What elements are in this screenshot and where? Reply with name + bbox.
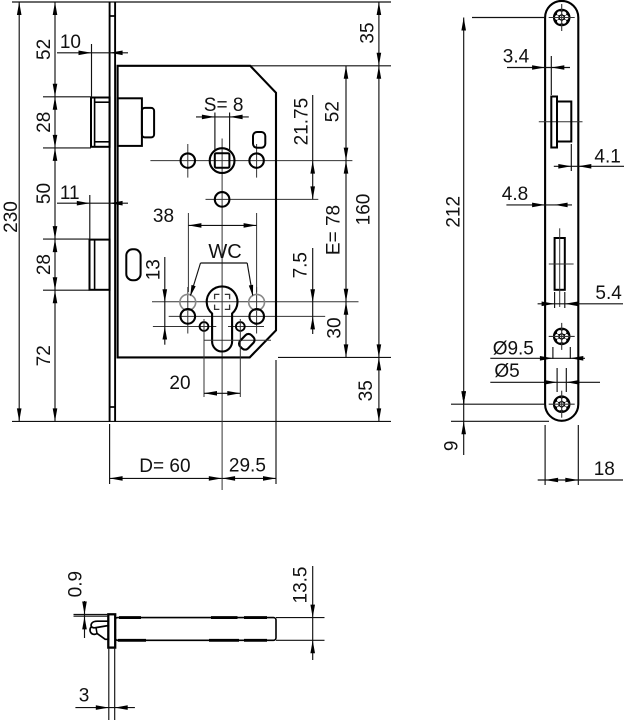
svg-text:72: 72 (34, 345, 55, 366)
svg-text:212: 212 (444, 196, 465, 228)
centerline WC right circles (256, 287, 258, 334)
svg-text:20: 20 (169, 373, 190, 394)
label 30 (324, 317, 345, 338)
centerline WC left circles (187, 287, 189, 334)
slot left of cylinder (13) (126, 249, 140, 280)
dimension dia5 (490, 380, 600, 385)
centerline small circles right (228, 326, 264, 328)
screw hole top (torx) (549, 4, 575, 31)
WC leader left (190, 263, 200, 297)
label 3.4 (503, 46, 530, 67)
ext line plate bottom (451, 420, 549, 422)
diamond centerline (204, 339, 271, 341)
label 28 upper left (34, 112, 55, 133)
centerline left hole (187, 144, 189, 178)
svg-text:WC: WC (208, 241, 241, 263)
dimension column 35/160/35 (377, 2, 382, 421)
ext line latch front (91, 44, 93, 98)
lock case top view (115, 618, 276, 641)
label 72 left (34, 345, 55, 366)
svg-text:Ø5: Ø5 (494, 361, 519, 382)
svg-text:35: 35 (357, 22, 378, 43)
ext lines 5.4 (555, 292, 565, 308)
label 230 (1, 201, 22, 233)
svg-text:13: 13 (144, 259, 165, 280)
dimension 13.5 (310, 566, 315, 660)
svg-text:Ø9.5: Ø9.5 (493, 338, 534, 359)
faceplate back edge (114, 2, 116, 421)
label D=60 (139, 456, 190, 477)
label 21.75 (292, 98, 313, 146)
label 9 (441, 441, 462, 452)
hole left of spindle (181, 153, 195, 167)
WC follower circle right (thin) (249, 294, 265, 310)
dashed square in cylinder circle (215, 294, 230, 309)
svg-text:18: 18 (594, 459, 615, 480)
faceplate top view (108, 614, 115, 647)
extension line case top right (250, 65, 391, 67)
label 28 lower left (34, 254, 55, 275)
svg-text:D= 60: D= 60 (139, 456, 190, 477)
svg-text:28: 28 (34, 254, 55, 275)
label 50 left (34, 183, 55, 204)
centerline small circles left (153, 326, 216, 328)
spindle square S=8 (215, 153, 230, 168)
ext latch top (43, 96, 91, 98)
svg-text:30: 30 (324, 317, 345, 338)
extension line top (y=230 top) (12, 1, 391, 3)
deadbolt head bevel line (94, 240, 96, 290)
dimension line 230 (17, 2, 22, 421)
ext lines 38 (188, 213, 256, 292)
latch side body (557, 102, 571, 142)
dimension D=60 (110, 476, 222, 481)
ext latch bottom (43, 147, 91, 149)
euro profile cylinder hole (207, 286, 238, 351)
label 4.8 (502, 184, 528, 205)
dimension chain 52/28/50/28/72 (53, 2, 58, 421)
screw post circle right (249, 309, 264, 324)
centerline circles row 2 (169, 315, 326, 317)
svg-text:3: 3 (79, 685, 90, 706)
ext line latch flange front (550, 56, 552, 95)
svg-text:5.4: 5.4 (595, 283, 622, 304)
dimension 0.9 (82, 601, 87, 638)
label S=8 (204, 95, 244, 116)
dimension 20 (204, 391, 240, 396)
ext lines dia9.5 (553, 347, 570, 359)
dimension column 52/E=78/30 (344, 66, 349, 358)
faceplate front edge (109, 2, 111, 421)
label WC (208, 241, 241, 263)
label 13 (144, 259, 165, 280)
deadbolt head (90, 240, 110, 290)
latch bolt top view (90, 621, 109, 639)
svg-text:7.5: 7.5 (291, 252, 312, 278)
ext line case right bottom (275, 360, 277, 484)
dimension 7.5 (310, 248, 315, 334)
dimension 4.8 (506, 203, 572, 208)
dimension 21.75 (310, 95, 315, 199)
label 212 (444, 196, 465, 228)
case top view fold tabs (118, 618, 267, 641)
label 52 right (323, 101, 344, 122)
svg-text:13.5: 13.5 (290, 567, 311, 604)
svg-text:52: 52 (34, 39, 55, 60)
svg-text:0.9: 0.9 (66, 571, 87, 597)
latch bolt head (91, 98, 110, 147)
svg-text:10: 10 (60, 32, 81, 53)
label dia9.5 (493, 338, 534, 359)
dimension 13 (163, 257, 168, 345)
dimension 3.4 (507, 65, 570, 70)
small hole right (236, 322, 245, 331)
latch side centerline (539, 121, 583, 123)
extension line cylinder centerline (152, 301, 359, 303)
lock case outline (118, 66, 276, 358)
WC follower circle left (thin) (180, 294, 196, 310)
svg-text:29.5: 29.5 (229, 456, 266, 477)
label 10 (60, 32, 81, 53)
diamond hole (237, 332, 256, 351)
latch bolt head bevel line vertical (94, 98, 96, 147)
spindle hub circle (210, 148, 235, 173)
ext lines 20 (204, 319, 240, 397)
latch bolt tail nose (142, 108, 154, 137)
dimension dia9.5 (490, 356, 585, 361)
ext deadbolt bottom (43, 289, 90, 291)
dimension 29.5 (222, 476, 276, 481)
dimension 9 (461, 391, 466, 455)
label dia5 (494, 361, 519, 382)
latch bolt head bevel line bottom (95, 141, 110, 143)
label 20 (169, 373, 190, 394)
svg-text:4.8: 4.8 (502, 184, 528, 205)
ext lines S=8 (215, 113, 230, 152)
label 3 (79, 685, 90, 706)
deadbolt slot (555, 238, 565, 290)
ext lines dia5 (557, 368, 566, 392)
dimension 5.4 (538, 302, 623, 307)
latch side flange (551, 97, 557, 148)
screw slot top right (253, 132, 265, 148)
svg-text:52: 52 (323, 101, 344, 122)
small hole left (200, 322, 209, 331)
svg-text:35: 35 (356, 380, 377, 401)
svg-text:S= 8: S= 8 (204, 95, 244, 116)
label 0.9 (66, 571, 87, 597)
WC leader bar (201, 262, 248, 264)
dimension 18 (538, 478, 623, 483)
label 11 (60, 183, 80, 204)
label 38 (153, 206, 174, 227)
svg-text:E= 78: E= 78 (323, 205, 344, 255)
WC leader right (247, 263, 253, 297)
dimension 212 (461, 18, 466, 405)
svg-text:9: 9 (441, 441, 462, 452)
label 7.5 (291, 252, 312, 278)
svg-text:4.1: 4.1 (594, 147, 620, 168)
hole below spindle (215, 192, 230, 207)
faceplate top cap line (110, 15, 116, 17)
label 35 bottom (356, 380, 377, 401)
svg-text:11: 11 (60, 183, 80, 204)
label 4.1 (594, 147, 620, 168)
faceplate side outline (545, 1, 578, 421)
dimension 38 (188, 223, 256, 228)
svg-text:3.4: 3.4 (503, 46, 530, 67)
ext line bottom screw center (451, 403, 545, 405)
dimension 3 (75, 705, 134, 710)
dimension 4.1 (554, 164, 624, 169)
ext lines 13.5 (276, 618, 325, 641)
slot vertical centerline (559, 228, 561, 307)
latch bolt head bevel line top (95, 101, 110, 103)
ext line top screw center (472, 17, 545, 19)
label 35 top (357, 22, 378, 43)
screw post circle left (181, 309, 196, 324)
label 52 left (34, 39, 55, 60)
extension line case bottom right (278, 356, 391, 358)
ext lines 18 (545, 425, 578, 485)
screw hole middle (torx) (549, 323, 575, 350)
dimension 10 (57, 51, 128, 56)
screw hole bottom (torx) (549, 391, 575, 418)
faceplate ext lines down (109, 648, 115, 720)
svg-text:21.75: 21.75 (292, 98, 313, 146)
label E=78 (323, 205, 344, 255)
svg-text:28: 28 (34, 112, 55, 133)
label 160 (354, 194, 375, 226)
slot horizontal centerline (549, 263, 574, 265)
label 5.4 (595, 283, 622, 304)
extension line bottom (y=230 bottom) (12, 420, 391, 422)
ext line deadbolt front (89, 195, 91, 240)
dimension 11 (57, 201, 128, 206)
label 29.5 (229, 456, 266, 477)
dimension S=8 (196, 115, 249, 120)
ext deadbolt top (43, 238, 90, 240)
svg-text:50: 50 (34, 183, 55, 204)
ext line plate front bottom (109, 424, 111, 484)
label 18 (594, 459, 615, 480)
svg-text:160: 160 (354, 194, 375, 226)
label 13.5 (290, 567, 311, 604)
ext line latch body back (570, 144, 572, 171)
extension line spindle centerline right (150, 160, 352, 162)
svg-text:230: 230 (1, 201, 22, 233)
hole right of spindle (249, 153, 263, 167)
svg-text:38: 38 (153, 206, 174, 227)
faceplate bottom cap line (110, 406, 116, 408)
latch bolt tail in case (118, 98, 142, 146)
ext lines 0.9 (74, 615, 109, 617)
extension line lower hole centerline (206, 198, 319, 200)
centerline right hole (256, 144, 258, 178)
main vertical centerline (221, 139, 223, 491)
